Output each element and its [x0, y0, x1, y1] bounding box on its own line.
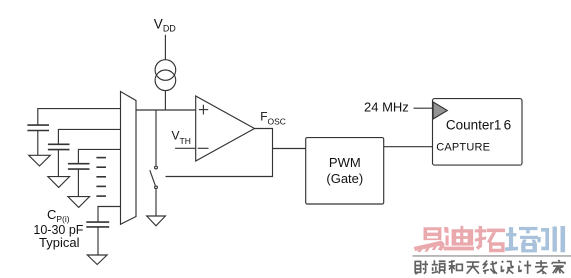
- watermark tagline: [415, 260, 565, 274]
- block Counter16: [433, 99, 523, 166]
- clock input triangle: [433, 102, 447, 119]
- watermark char Di: [443, 226, 474, 251]
- block PWM: [306, 138, 384, 204]
- watermark char Tuo: [475, 226, 505, 252]
- ellipsis dashes (more caps): [96, 158, 106, 197]
- svg-text:CAPTURE: CAPTURE: [436, 142, 490, 154]
- wire: [164, 35, 166, 60]
- wire PWM to Counter: [384, 146, 433, 148]
- op-amp U1: [196, 96, 255, 161]
- capacitor C4 (Cp): [86, 207, 120, 256]
- svg-text:Typical: Typical: [39, 235, 80, 250]
- svg-text:VTH: VTH: [172, 129, 191, 147]
- wire 24MHz: [414, 107, 433, 109]
- ground: [87, 255, 107, 265]
- wire to PWM: [273, 148, 306, 150]
- ground: [147, 216, 166, 226]
- svg-text:24 MHz: 24 MHz: [364, 100, 409, 115]
- wire node main: [136, 109, 196, 111]
- watermark char Pei: [505, 227, 538, 253]
- svg-text:Counter16: Counter16: [446, 117, 511, 132]
- svg-text:VDD: VDD: [154, 17, 177, 34]
- capacitor C1: [27, 109, 120, 156]
- svg-text:FOSC: FOSC: [260, 109, 286, 126]
- ground: [68, 197, 90, 208]
- capacitor C3: [68, 149, 121, 196]
- node VDD: [164, 35, 166, 60]
- watermark char Yi: [414, 227, 445, 252]
- capacitor C2: [48, 129, 121, 176]
- watermark underline: [413, 255, 571, 256]
- current source I1: [155, 60, 176, 91]
- svg-text:CP(i): CP(i): [47, 207, 70, 224]
- svg-text:(Gate): (Gate): [326, 171, 363, 186]
- ground: [29, 155, 51, 166]
- wire: [164, 91, 166, 110]
- watermark char Xun: [537, 226, 565, 252]
- wire Fosc output: [166, 129, 273, 177]
- switch S1: [150, 110, 158, 216]
- wire Vth input: [175, 147, 196, 149]
- ground: [48, 177, 70, 188]
- svg-text:PWM: PWM: [329, 155, 361, 170]
- mux U2: [121, 92, 137, 225]
